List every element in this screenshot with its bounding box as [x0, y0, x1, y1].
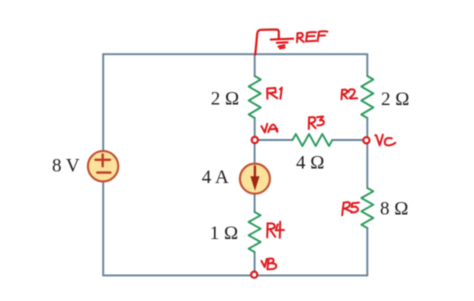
- svg-text:4 A: 4 A: [202, 167, 229, 188]
- wire R4 to node VB: [254, 252, 256, 275]
- resistor R4 zigzag: [249, 212, 261, 252]
- node VB circle: [251, 272, 257, 278]
- voltage source V1 circle: [88, 151, 118, 181]
- voltage source minus sign: [97, 171, 110, 173]
- wire left lower: [102, 181, 104, 275]
- wire R3 to node VC: [332, 139, 367, 141]
- wire bottom: [103, 274, 367, 276]
- label REF: [297, 31, 327, 42]
- svg-text:1 Ω: 1 Ω: [210, 223, 238, 244]
- label VB handwritten: [261, 258, 276, 269]
- wire current source to R4: [254, 193, 256, 212]
- wire right middle: [366, 118, 368, 188]
- label R4 handwritten: [267, 222, 284, 238]
- svg-text:8 V: 8 V: [52, 155, 80, 176]
- label R5 handwritten: [342, 202, 359, 215]
- node VC circle: [363, 137, 369, 143]
- wire middle top: [254, 54, 256, 76]
- resistor R2 zigzag: [361, 76, 373, 118]
- svg-text:8 Ω: 8 Ω: [380, 199, 408, 220]
- wire right lower: [366, 228, 368, 275]
- voltage source plus sign: [96, 154, 111, 166]
- wire node VA to R3: [255, 139, 293, 141]
- REF connecting wire: [255, 30, 278, 55]
- wire node VA to current source: [254, 140, 256, 164]
- node VA circle: [252, 137, 258, 143]
- svg-text:2 Ω: 2 Ω: [381, 89, 409, 110]
- wire right upper: [366, 54, 368, 76]
- label R2 handwritten: [342, 89, 358, 99]
- resistor R1 zigzag: [249, 76, 261, 118]
- REF ground symbol: [271, 39, 293, 49]
- wire R1 to node VA: [254, 118, 256, 140]
- current source I1 circle: [240, 164, 270, 194]
- wire left upper: [102, 54, 104, 151]
- wire top: [103, 53, 367, 55]
- label VC handwritten: [375, 135, 395, 146]
- svg-text:4 Ω: 4 Ω: [296, 153, 324, 174]
- resistor R3 zigzag: [293, 134, 333, 146]
- label R3 handwritten: [309, 117, 324, 130]
- current source arrow: [254, 166, 256, 179]
- label R1 handwritten: [267, 88, 282, 99]
- resistor R5 zigzag: [361, 188, 373, 228]
- svg-text:2 Ω: 2 Ω: [211, 89, 239, 110]
- label VA handwritten: [261, 124, 277, 133]
